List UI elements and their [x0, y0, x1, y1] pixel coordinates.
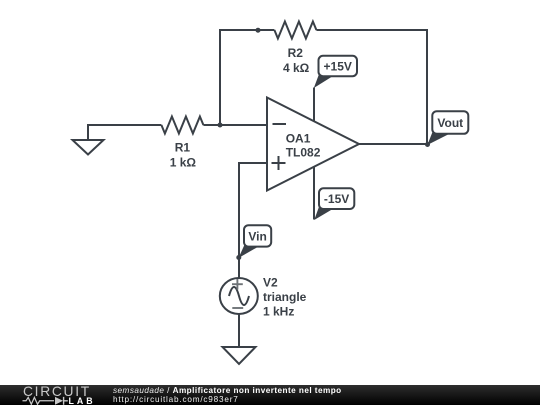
svg-text:Vin: Vin — [248, 229, 266, 243]
svg-text:4 kΩ: 4 kΩ — [283, 61, 310, 75]
svg-text:+15V: +15V — [324, 60, 352, 74]
svg-text:1 kΩ: 1 kΩ — [170, 156, 197, 170]
svg-text:V2: V2 — [263, 275, 278, 289]
svg-text:R2: R2 — [288, 46, 304, 60]
svg-text:triangle: triangle — [263, 290, 307, 304]
svg-text:OA1: OA1 — [286, 132, 311, 146]
svg-text:-15V: -15V — [324, 192, 349, 206]
svg-text:Vout: Vout — [437, 116, 463, 130]
svg-text:1 kHz: 1 kHz — [263, 305, 294, 319]
svg-text:TL082: TL082 — [286, 146, 321, 160]
svg-text:R1: R1 — [175, 140, 191, 154]
